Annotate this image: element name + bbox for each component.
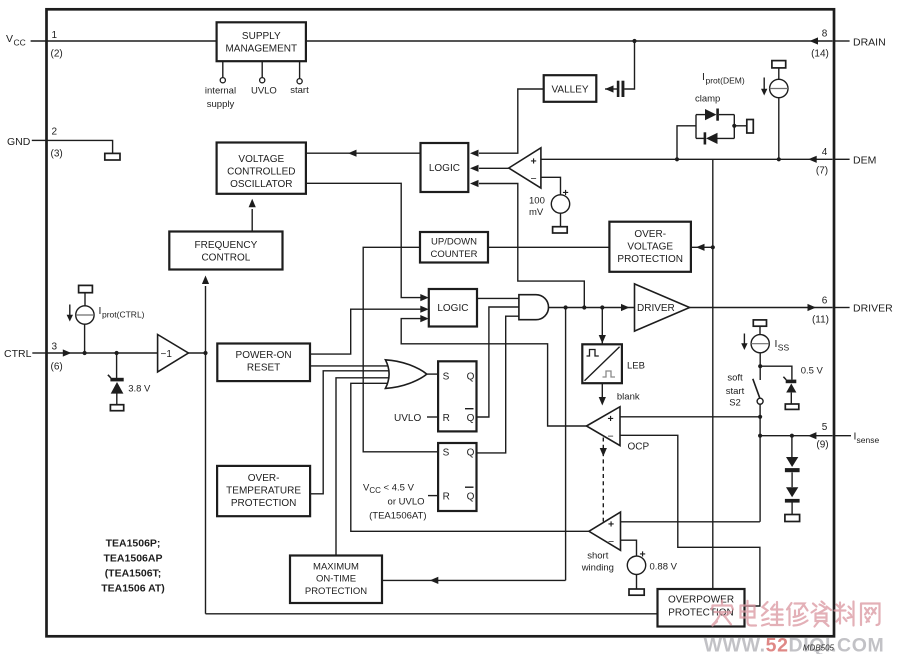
svg-text:6: 6	[822, 296, 828, 307]
svg-text:ON-TIME: ON-TIME	[316, 574, 356, 585]
svg-text:+: +	[608, 519, 614, 531]
svg-text:0.88 V: 0.88 V	[650, 561, 678, 572]
svg-text:(14): (14)	[811, 49, 829, 60]
svg-text:S: S	[443, 448, 450, 459]
svg-text:MAXIMUM: MAXIMUM	[313, 562, 359, 573]
svg-text:clamp: clamp	[695, 94, 720, 105]
svg-text:+: +	[563, 187, 569, 199]
svg-text:prot(DEM): prot(DEM)	[706, 76, 745, 86]
svg-text:+: +	[640, 549, 646, 561]
svg-text:CC: CC	[14, 38, 26, 48]
svg-text:OVER-: OVER-	[634, 229, 666, 240]
svg-text:mV: mV	[529, 207, 544, 218]
svg-text:short: short	[587, 551, 608, 562]
svg-text:Q: Q	[467, 413, 475, 424]
svg-text:(11): (11)	[812, 314, 829, 325]
svg-text:3.8 V: 3.8 V	[128, 383, 151, 394]
svg-text:GND: GND	[7, 136, 31, 148]
svg-text:−1: −1	[161, 349, 173, 360]
svg-text:PROTECTION: PROTECTION	[305, 586, 367, 597]
svg-text:OVER-: OVER-	[248, 473, 280, 484]
svg-text:or UVLO: or UVLO	[388, 497, 425, 508]
svg-text:DRIVER: DRIVER	[853, 302, 893, 314]
svg-text:start: start	[726, 386, 745, 397]
svg-text:(6): (6)	[51, 362, 63, 373]
svg-text:(9): (9)	[816, 439, 828, 450]
svg-text:TEA1506AP: TEA1506AP	[104, 553, 163, 565]
svg-text:8: 8	[822, 29, 828, 40]
svg-text:TEA1506P;: TEA1506P;	[106, 538, 161, 550]
svg-text:DRIVER: DRIVER	[637, 303, 675, 314]
svg-text:PROTECTION: PROTECTION	[617, 254, 683, 265]
svg-text:TEMPERATURE: TEMPERATURE	[226, 486, 301, 497]
svg-text:0.5 V: 0.5 V	[801, 366, 824, 377]
svg-text:+: +	[608, 413, 614, 425]
svg-text:COUNTER: COUNTER	[431, 249, 478, 260]
svg-text:internal: internal	[205, 86, 236, 97]
svg-text:MANAGEMENT: MANAGEMENT	[225, 44, 297, 55]
svg-text:I: I	[99, 305, 102, 317]
svg-text:−: −	[608, 536, 614, 548]
svg-text:SS: SS	[778, 343, 790, 353]
svg-text:R: R	[443, 413, 450, 424]
svg-text:FREQUENCY: FREQUENCY	[195, 240, 258, 251]
svg-text:VALLEY: VALLEY	[551, 84, 588, 95]
svg-text:WWW.52DIQI.COM: WWW.52DIQI.COM	[704, 635, 885, 654]
svg-text:RESET: RESET	[247, 363, 280, 374]
svg-text:−: −	[531, 173, 537, 185]
svg-text:LOGIC: LOGIC	[437, 303, 468, 314]
svg-text:TEA1506 AT): TEA1506 AT)	[101, 583, 165, 595]
svg-text:OCP: OCP	[628, 442, 650, 453]
svg-text:UP/DOWN: UP/DOWN	[431, 237, 477, 248]
svg-text:SUPPLY: SUPPLY	[242, 31, 281, 42]
svg-text:OSCILLATOR: OSCILLATOR	[230, 179, 292, 190]
svg-text:DEM: DEM	[853, 155, 876, 167]
svg-text:PROTECTION: PROTECTION	[231, 498, 297, 509]
svg-text:soft: soft	[727, 373, 743, 384]
svg-text:I: I	[702, 71, 705, 83]
svg-text:Q: Q	[467, 492, 475, 503]
svg-text:UVLO: UVLO	[394, 413, 421, 424]
svg-text:OVERPOWER: OVERPOWER	[668, 595, 734, 606]
svg-text:UVLO: UVLO	[251, 86, 277, 97]
svg-text:MDB505: MDB505	[803, 644, 835, 653]
svg-text:R: R	[443, 492, 450, 503]
svg-text:sense: sense	[857, 435, 880, 445]
svg-text:blank: blank	[617, 391, 640, 402]
svg-text:Q: Q	[467, 448, 475, 459]
svg-text:VOLTAGE: VOLTAGE	[627, 242, 673, 253]
svg-text:LEB: LEB	[627, 361, 645, 372]
svg-text:1: 1	[52, 30, 58, 41]
svg-text:−: −	[608, 431, 614, 443]
svg-text:CTRL: CTRL	[4, 348, 32, 360]
svg-text:POWER-ON: POWER-ON	[236, 350, 292, 361]
svg-text:start: start	[290, 85, 309, 96]
svg-text:VOLTAGE: VOLTAGE	[238, 154, 284, 165]
svg-text:LOGIC: LOGIC	[429, 163, 460, 174]
svg-text:CONTROL: CONTROL	[201, 253, 250, 264]
svg-text:(7): (7)	[816, 166, 828, 177]
svg-text:CONTROLLED: CONTROLLED	[227, 167, 295, 178]
svg-text:(TEA1506T;: (TEA1506T;	[105, 568, 162, 580]
svg-text:5: 5	[822, 422, 828, 433]
svg-text:S: S	[443, 372, 450, 383]
svg-text:3: 3	[52, 341, 58, 352]
svg-text:(2): (2)	[51, 49, 63, 60]
svg-text:supply: supply	[207, 99, 235, 110]
svg-text:DRAIN: DRAIN	[853, 36, 886, 48]
svg-text:2: 2	[52, 126, 58, 137]
svg-text:100: 100	[529, 195, 545, 206]
svg-text:V: V	[6, 33, 13, 45]
svg-text:4: 4	[822, 147, 828, 158]
svg-text:winding: winding	[581, 562, 614, 573]
svg-text:Q: Q	[467, 372, 475, 383]
svg-text:(3): (3)	[51, 148, 63, 159]
svg-text:(TEA1506AT): (TEA1506AT)	[369, 511, 426, 522]
svg-text:prot(CTRL): prot(CTRL)	[102, 310, 145, 320]
svg-text:+: +	[531, 156, 537, 168]
svg-text:S2: S2	[729, 398, 741, 409]
